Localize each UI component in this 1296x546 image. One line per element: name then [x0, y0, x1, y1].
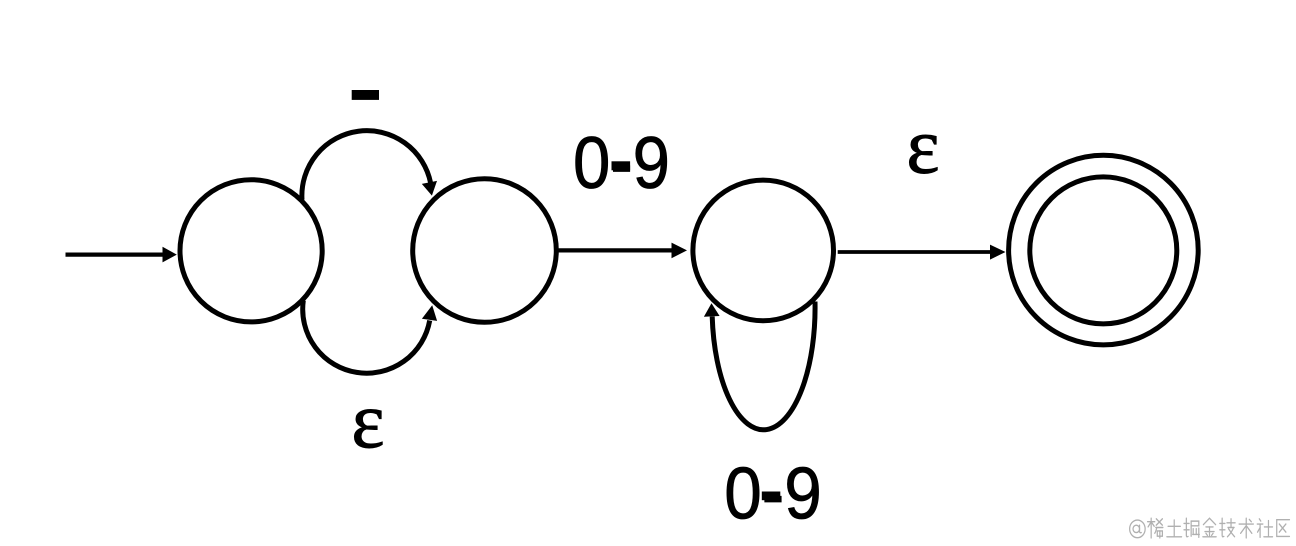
label minus [352, 90, 379, 100]
state q1 [413, 179, 557, 323]
label 0-9 top hyphen bold [612, 161, 631, 170]
final state inner circle [1030, 177, 1177, 324]
watermark char jin (金) [1203, 518, 1216, 537]
watermark char jue (掘) [1184, 518, 1199, 537]
watermark char xi1 (稀) [1148, 518, 1163, 538]
svg-text:ε: ε [906, 104, 939, 191]
label 0-9 bottom hyphen bold [762, 492, 781, 501]
svg-text:ε: ε [351, 378, 384, 465]
final state outer circle [1009, 155, 1199, 345]
state q0 [180, 180, 322, 322]
watermark char @ [1130, 520, 1146, 538]
transition arrow q1 to q2 (0-9) [557, 243, 687, 259]
watermark char qu (区) [1277, 520, 1290, 537]
watermark char shu (术) [1239, 518, 1253, 538]
watermark "@稀土掘金技术社区" (drawn as vector strokes) [1130, 518, 1290, 538]
self loop on q2 [704, 302, 815, 430]
transition arc q0 to q1 bottom (epsilon) [303, 301, 437, 374]
state q2 [693, 180, 834, 321]
start arrow into q0 [66, 247, 177, 263]
transition arrow q2 to final (epsilon) [838, 245, 1006, 260]
watermark char ji (技) [1220, 518, 1235, 537]
transition arc q0 to q1 top (minus) [302, 131, 437, 200]
watermark char tu (土) [1167, 520, 1182, 537]
watermark char she (社) [1257, 519, 1272, 538]
